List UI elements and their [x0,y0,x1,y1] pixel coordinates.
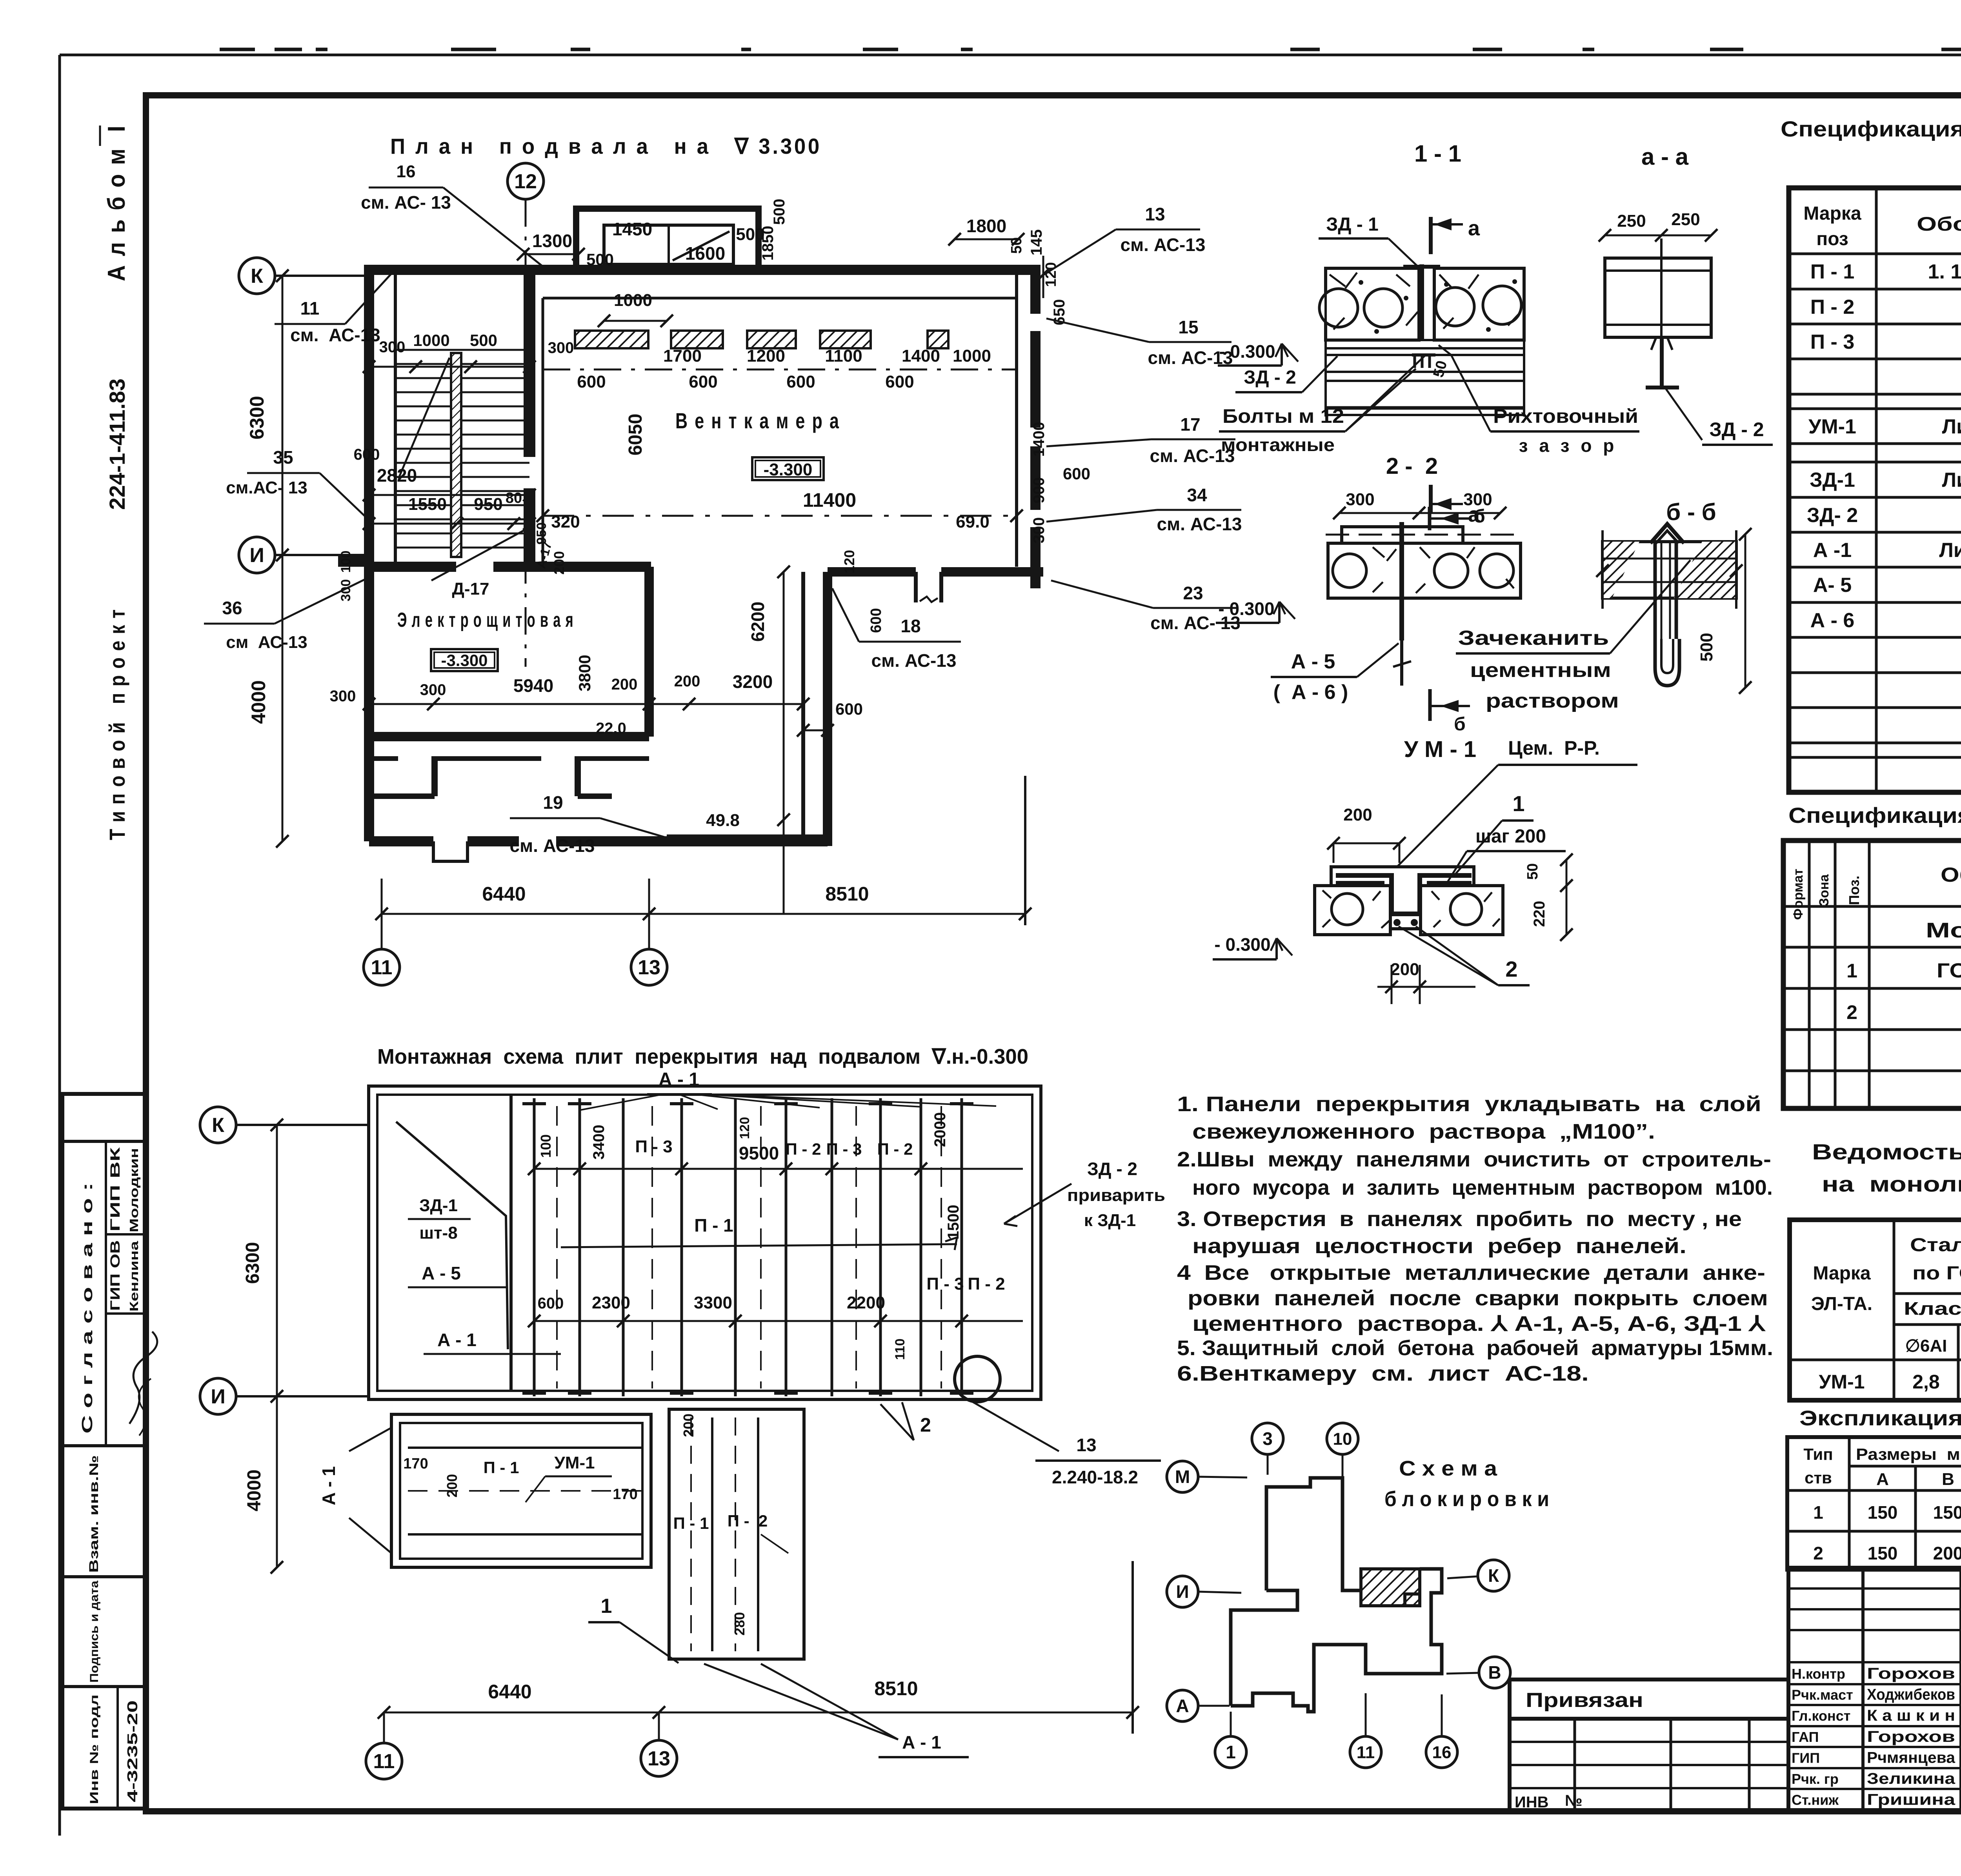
svg-text:200: 200 [551,551,567,575]
svg-text:Молодкин: Молодкин [127,1148,141,1232]
svg-text:раствором: раствором [1486,690,1619,712]
svg-text:3: 3 [1262,1428,1273,1449]
svg-text:поз: поз [1816,229,1848,249]
svg-text:6440: 6440 [482,883,526,905]
svg-text:49.8: 49.8 [706,811,740,830]
svg-text:П - 3: П - 3 [635,1137,672,1156]
svg-text:1850: 1850 [759,226,777,261]
svg-text:50: 50 [1008,237,1025,254]
svg-text:А л ь б о м I: А л ь б о м I [103,124,130,281]
svg-text:Ведомость расхода стали: Ведомость расхода стали [1812,1139,1961,1164]
title block bottom line [146,1809,1961,1814]
svg-text:600: 600 [689,372,717,391]
svg-text:3300: 3300 [694,1293,732,1312]
stair treads [395,349,529,351]
svg-text:110: 110 [893,1339,908,1360]
svg-text:600: 600 [1063,464,1090,483]
stair compartment inner wall [394,270,397,567]
svg-text:ЗД-1: ЗД-1 [1810,469,1855,491]
svg-text:18: 18 [900,616,920,636]
svg-text:150: 150 [1933,1502,1961,1523]
section mark b upper [1428,507,1432,530]
svg-text:∅6АI: ∅6АI [1905,1336,1947,1356]
montage outer boundary [369,1086,1041,1399]
svg-text:11: 11 [373,1750,395,1773]
svg-text:1: 1 [1512,791,1524,816]
svg-text:Горохов: Горохов [1867,1728,1955,1745]
svg-text:А - 6: А - 6 [1810,609,1855,632]
blok building outline [1266,1478,1361,1590]
svg-text:см. АС- 13: см. АС- 13 [361,192,451,213]
b-b edge ticks [1601,530,1604,609]
svg-text:Рихтовочный: Рихтовочный [1493,405,1638,427]
page trim border [60,54,1961,56]
svg-text:120: 120 [841,550,857,573]
svg-text:Гл.конст: Гл.конст [1792,1708,1850,1724]
svg-text:2: 2 [1813,1543,1823,1563]
svg-text:200: 200 [1390,960,1419,979]
title block signature rows [1788,1683,1961,1685]
svg-text:Д-17: Д-17 [452,579,489,599]
section mark b lower [1428,689,1432,721]
svg-text:600: 600 [786,372,815,391]
svg-text:УМ-1: УМ-1 [1808,415,1856,438]
svg-text:-3.300: -3.300 [764,460,813,479]
svg-text:ЗД-1: ЗД-1 [419,1196,458,1215]
electro room bottom wall [369,732,649,741]
svg-text:П л а н п о д в а л а н а: П л а н п о д в а л а н а ∇ 3.300 [390,134,822,158]
svg-text:Монтажная схема плит перекр: Монтажная схема плит перекрытия над подв… [377,1045,1028,1068]
svg-text:Марка: Марка [1803,203,1861,224]
scan dashes along top edge [220,48,255,51]
vent room center dash line [543,369,1017,371]
svg-text:Экспликация отверстий: Экспликация отверстий [1799,1407,1961,1430]
svg-text:П - 2: П - 2 [786,1140,821,1158]
svg-text:200: 200 [444,1474,460,1498]
svg-text:б: б [1473,506,1485,527]
montage axis 11 [366,1743,402,1779]
svg-text:Поз.: Поз. [1846,875,1862,905]
svg-text:Кенлина: Кенлина [127,1241,141,1312]
svg-text:Цем. P-P.: Цем. P-P. [1508,737,1600,759]
svg-text:В: В [1942,1470,1954,1489]
svg-text:22.0: 22.0 [596,720,626,737]
montage bottom-left block [391,1414,651,1567]
svg-text:1. 141-1 В . 59: 1. 141-1 В . 59 [1928,260,1961,283]
svg-text:300: 300 [1346,490,1374,509]
2-2 texture [1373,547,1514,593]
bolts under joint [1412,353,1435,357]
svg-text:см. АС-13: см. АС-13 [290,325,380,345]
montage bottom-middle block [669,1409,804,1659]
svg-text:Гришина: Гришина [1867,1791,1956,1809]
svg-text:16: 16 [1432,1743,1452,1762]
stair stringer hatched [451,353,461,557]
svg-text:С о г л а с о в а н о :: С о г л а с о в а н о : [79,1183,96,1434]
svg-text:200: 200 [1933,1543,1961,1563]
svg-text:600: 600 [885,372,914,391]
svg-text:см. АС-13: см. АС-13 [1157,514,1242,534]
title block signature columns [1786,1568,1790,1810]
plan dimensions top [523,253,578,255]
svg-text:200: 200 [611,676,638,693]
svg-text:А: А [1876,1470,1889,1489]
svg-text:ного мусора и залить цемен: ного мусора и залить цементным раствором… [1192,1176,1773,1199]
svg-text:11: 11 [1357,1743,1375,1762]
svg-text:500: 500 [586,250,614,269]
svg-text:170: 170 [403,1456,428,1472]
blok hatched block [1361,1569,1420,1606]
svg-text:б - б: б - б [1666,499,1716,525]
slab texture 1-1 [1330,273,1519,329]
svg-text:145: 145 [1028,229,1045,256]
svg-text:200: 200 [680,1414,697,1437]
svg-text:В: В [1488,1662,1501,1683]
svg-text:Зачеканить: Зачеканить [1458,627,1609,650]
svg-text:ЭЛ-ТА.: ЭЛ-ТА. [1811,1294,1872,1314]
svg-text:шаг 200: шаг 200 [1475,826,1546,847]
svg-text:1800: 1800 [966,216,1006,236]
section 1-1 slab left [1326,268,1419,340]
svg-text:2820: 2820 [377,465,417,486]
montage interior dim lines [534,1168,1023,1170]
svg-text:1600: 1600 [685,243,725,264]
privyazan table [1508,1679,1512,1810]
svg-text:Формат: Формат [1791,869,1806,920]
svg-text:300: 300 [338,579,353,602]
svg-text:320: 320 [551,512,580,531]
plan top wall [364,265,1039,275]
approval stamp table (left strip) [62,1094,146,1809]
svg-text:120: 120 [737,1117,752,1139]
svg-text:А- 5: А- 5 [1813,574,1852,597]
svg-text:4000: 4000 [244,1470,265,1512]
svg-text:И: И [249,544,264,567]
svg-text:Размеры мм: Размеры мм [1856,1445,1961,1463]
svg-text:б л о к и р о в к и: б л о к и р о в к и [1384,1487,1549,1511]
svg-text:1000: 1000 [953,346,991,366]
svg-text:Марка: Марка [1813,1263,1871,1284]
svg-text:Ст.ниж: Ст.ниж [1792,1792,1839,1808]
svg-text:В е н т к а м е р а: В е н т к а м е р а [675,408,840,433]
layers below slab 1-1 [1326,339,1524,341]
svg-text:Обозначение: Обозначение [1941,864,1961,886]
UM-1 weld dots [1393,919,1401,926]
svg-text:300: 300 [1030,517,1048,544]
svg-text:4-3235-20: 4-3235-20 [124,1700,140,1802]
svg-text:Сталь арматурная: Сталь арматурная [1910,1235,1961,1256]
svg-text:П - 2: П - 2 [877,1140,913,1158]
svg-text:а: а [1468,217,1480,240]
svg-text:Инв № подл: Инв № подл [88,1694,101,1804]
svg-text:Взам. инв.№: Взам. инв.№ [87,1455,101,1573]
svg-text:3400: 3400 [590,1125,608,1160]
2-2 top plate [1342,527,1463,543]
montage axis K [200,1107,236,1143]
svg-text:ГАП: ГАП [1792,1729,1819,1745]
left vertical dims 6300 4000 [282,276,284,555]
montage detail circle 13 [955,1356,1000,1402]
svg-text:см.АС- 13: см.АС- 13 [226,478,307,497]
svg-text:900: 900 [1030,477,1048,504]
svg-text:300: 300 [548,339,574,357]
svg-text:6300: 6300 [242,1242,263,1284]
svg-text:2200: 2200 [847,1293,885,1312]
svg-text:см. АС-13: см. АС-13 [510,835,595,856]
svg-text:нарушая целостности ребер п: нарушая целостности ребер панелей. [1192,1234,1686,1258]
svg-text:Обозначение: Обозначение [1917,213,1961,235]
montage axis I [200,1378,236,1414]
svg-text:ЗД - 2: ЗД - 2 [1709,419,1764,440]
svg-text:Лист АС-60: Лист АС-60 [1939,539,1961,562]
svg-text:2: 2 [1846,1001,1857,1023]
svg-text:2000: 2000 [931,1112,949,1147]
svg-text:Класс АI: Класс АI [1904,1298,1961,1319]
svg-text:5940: 5940 [513,675,553,696]
svg-text:50: 50 [1524,863,1541,880]
svg-text:к ЗД-1: к ЗД-1 [1084,1211,1136,1230]
svg-text:Н.контр: Н.контр [1792,1666,1845,1682]
a-a slab box [1605,258,1711,337]
svg-text:500: 500 [1697,633,1716,661]
svg-text:А - 1: А - 1 [437,1330,477,1350]
a-a dim 250 250 [1605,235,1711,237]
steel table grid [1893,1220,1896,1400]
svg-text:П - 2: П - 2 [1810,296,1855,318]
svg-text:13: 13 [638,956,660,979]
svg-text:36: 36 [222,598,242,618]
svg-text:П - 2: П - 2 [968,1274,1005,1294]
svg-text:К: К [212,1114,224,1137]
axis 11 circle [364,949,400,985]
svg-text:Привязан: Привязан [1526,1689,1643,1712]
svg-text:6440: 6440 [488,1681,531,1703]
stair right wall [524,265,535,567]
svg-text:1300: 1300 [532,231,572,251]
svg-text:200: 200 [674,673,700,690]
svg-text:А: А [1176,1696,1189,1716]
svg-text:- 0.300: - 0.300 [1214,934,1270,955]
blok axis circles [1252,1423,1283,1454]
electro room right wall [644,567,654,737]
svg-text:Горохов: Горохов [1867,1665,1955,1682]
svg-text:М: М [1175,1467,1190,1487]
axis K circle [239,258,275,294]
svg-text:Лист АС-17: Лист АС-17 [1942,415,1961,438]
svg-text:Т и п о в о й п р о е к т: Т и п о в о й п р о е к т [105,609,129,840]
svg-text:1: 1 [601,1595,612,1618]
b-b U anchor [1650,524,1684,543]
svg-text:2: 2 [920,1414,931,1436]
svg-text:Лист АС-60: Лист АС-60 [1942,469,1961,491]
axis 12 circle and line [508,163,544,199]
2-2 hollow cores [1333,554,1366,588]
door stubs on I wall [914,572,918,602]
svg-text:Тип: Тип [1803,1445,1833,1463]
svg-text:по ГОСТ 5781- 82: по ГОСТ 5781- 82 [1912,1263,1961,1284]
svg-text:8510: 8510 [825,883,869,905]
spec table 1 grid [1875,188,1878,792]
svg-text:200: 200 [1343,805,1372,824]
holes table grid [1848,1437,1851,1570]
svg-text:- 0.300: - 0.300 [1218,599,1274,619]
svg-text:150: 150 [1868,1543,1898,1563]
svg-text:2.240-18.2: 2.240-18.2 [1052,1467,1138,1487]
svg-text:Ходжибеков: Ходжибеков [1867,1686,1955,1703]
svg-text:ГИП: ГИП [1792,1750,1820,1766]
svg-text:19: 19 [543,792,563,813]
anchor plate ZD-1 [1419,264,1424,341]
svg-text:1700: 1700 [663,346,702,366]
svg-text:1000: 1000 [614,291,652,310]
svg-text:9500: 9500 [739,1143,779,1163]
svg-text:15: 15 [1178,317,1198,337]
svg-text:1 - 1: 1 - 1 [1414,140,1461,167]
svg-text:10: 10 [1333,1429,1352,1448]
svg-text:П - 1: П - 1 [694,1215,733,1236]
svg-text:600: 600 [354,446,380,463]
svg-text:А - 1: А - 1 [318,1466,339,1505]
svg-text:Рчмянцева: Рчмянцева [1867,1749,1956,1766]
svg-text:П - 1: П - 1 [1810,260,1855,283]
svg-text:П - 1: П - 1 [484,1458,519,1477]
svg-text:300: 300 [420,681,446,699]
svg-text:УМ-1: УМ-1 [554,1453,595,1472]
svg-text:Спецификация железобетонных: Спецификация железобетонных изделий на п… [1781,116,1961,141]
svg-text:1500: 1500 [945,1205,962,1240]
vent duct hatched openings [575,331,648,348]
svg-text:1: 1 [1226,1742,1236,1762]
section b-b slab [1603,542,1736,598]
svg-text:Зеликина: Зеликина [1867,1770,1956,1787]
svg-text:ГИП ОВ: ГИП ОВ [108,1240,123,1311]
2-2 anchor bar A-5 [1399,522,1404,640]
svg-text:4000: 4000 [247,680,269,724]
svg-text:11: 11 [300,298,320,318]
svg-text:250: 250 [1671,210,1700,229]
svg-text:5. Защитный слой бетона раб: 5. Защитный слой бетона рабочей арматуры… [1177,1336,1773,1360]
panel anchor ticks top and bottom [522,1102,546,1105]
svg-text:1000: 1000 [413,331,449,349]
svg-text:Спецификация монолитных желе: Спецификация монолитных железобетонных к… [1788,803,1961,828]
svg-text:Рчк. гр: Рчк. гр [1792,1771,1839,1787]
svg-text:см. АС-13: см. АС-13 [1121,235,1206,255]
montage panel strips [533,1098,536,1396]
slab hollow cores 1-1 [1319,289,1358,327]
svg-text:950: 950 [474,495,502,514]
axis 13 circle [631,949,667,985]
svg-text:П - 1: П - 1 [673,1514,709,1532]
svg-text:И: И [1176,1581,1189,1602]
plan right wall [1030,265,1041,588]
UM-1 top outline [1331,867,1474,886]
svg-text:П - 2: П - 2 [728,1512,768,1530]
svg-text:П - 3: П - 3 [826,1140,862,1158]
svg-text:17: 17 [1180,414,1200,435]
svg-text:К: К [251,265,263,287]
svg-text:80: 80 [506,490,522,506]
montage left dim 6300 4000 [276,1125,278,1396]
svg-text:б: б [1454,714,1466,735]
section mark a lower [1429,485,1433,513]
svg-text:500: 500 [771,199,788,225]
svg-text:300: 300 [330,688,356,705]
svg-text:220: 220 [1531,901,1548,927]
plan left wall [364,265,374,841]
svg-text:ГИП ВК: ГИП ВК [108,1147,123,1232]
svg-text:Болты м 12: Болты м 12 [1222,405,1344,427]
corridor walls down from I [801,572,805,837]
b-b dim 500 [1745,534,1746,688]
svg-text:2.Швы между панелями очисти: 2.Швы между панелями очистить от строите… [1177,1148,1771,1171]
svg-text:11400: 11400 [803,489,856,511]
svg-text:ровки панелей после сварки: ровки панелей после сварки покрыть слоем [1188,1286,1768,1310]
svg-text:12: 12 [514,170,537,193]
svg-text:Монолитный: Монолитный [1926,919,1961,942]
svg-text:6050: 6050 [625,414,646,456]
axis I wall row [338,555,369,567]
svg-text:см АС-13: см АС-13 [226,633,307,652]
svg-text:3. Отверстия в панелях проб: 3. Отверстия в панелях пробить по месту … [1177,1207,1742,1231]
montage stair zone [509,1095,513,1391]
svg-text:№: № [1565,1792,1583,1809]
stamp signatures scribble [129,1332,157,1424]
svg-text:2: 2 [1505,957,1517,981]
svg-text:4 Все открытые металлическ: 4 Все открытые металлические детали анке… [1177,1261,1765,1285]
svg-text:8510: 8510 [874,1678,918,1699]
section mark a upper [1429,217,1433,254]
svg-text:13: 13 [1076,1435,1096,1455]
svg-text:2,8: 2,8 [1912,1371,1940,1393]
svg-text:А - 5: А - 5 [1291,650,1335,673]
svg-text:ГОСТ 5781- 82: ГОСТ 5781- 82 [1937,959,1961,982]
2-2 slab band [1328,543,1521,598]
svg-text:з а з о р: з а з о р [1519,435,1617,456]
plan top bump outline [576,209,759,265]
svg-text:К а ш к и н: К а ш к и н [1867,1707,1955,1724]
svg-text:250: 250 [1617,211,1646,231]
svg-text:- 0.300: - 0.300 [1219,341,1275,362]
svg-text:1. Панели перекрытия укладыв: 1. Панели перекрытия укладывать на слой [1177,1092,1761,1116]
svg-text:цементным: цементным [1470,659,1611,682]
svg-text:свежеуложенного раствора „М1: свежеуложенного раствора „М100”. [1192,1120,1655,1143]
svg-text:6300: 6300 [246,396,268,439]
vent room inner top wall line [543,297,1017,300]
svg-text:УМ-1: УМ-1 [1819,1371,1865,1393]
svg-text:ЗД - 2: ЗД - 2 [1087,1159,1137,1179]
svg-text:300: 300 [379,338,406,356]
svg-text:13: 13 [648,1747,670,1770]
svg-text:ств: ств [1805,1468,1832,1487]
svg-text:А -1: А -1 [1813,539,1852,562]
svg-text:1400: 1400 [1030,422,1048,457]
svg-text:69.0: 69.0 [956,512,990,531]
a-a anchor ZD-2 [1660,337,1664,388]
montage axis 13 [641,1740,677,1776]
svg-text:Рчк.маст: Рчк.маст [1792,1687,1853,1703]
level mark -3.300 vent [752,457,824,480]
svg-text:6.Венткамеру см. лист АС-18: 6.Венткамеру см. лист АС-18. [1177,1362,1589,1385]
svg-text:2300: 2300 [592,1293,630,1312]
svg-text:А - 5: А - 5 [422,1263,461,1283]
svg-text:600: 600 [868,608,884,633]
svg-text:1400: 1400 [902,346,940,366]
svg-text:-3.300: -3.300 [441,651,488,670]
svg-text:Подпись и дата: Подпись и дата [88,1581,101,1683]
svg-text:шт-8: шт-8 [419,1223,457,1243]
svg-text:23: 23 [1183,583,1203,603]
svg-text:13: 13 [1145,204,1165,224]
